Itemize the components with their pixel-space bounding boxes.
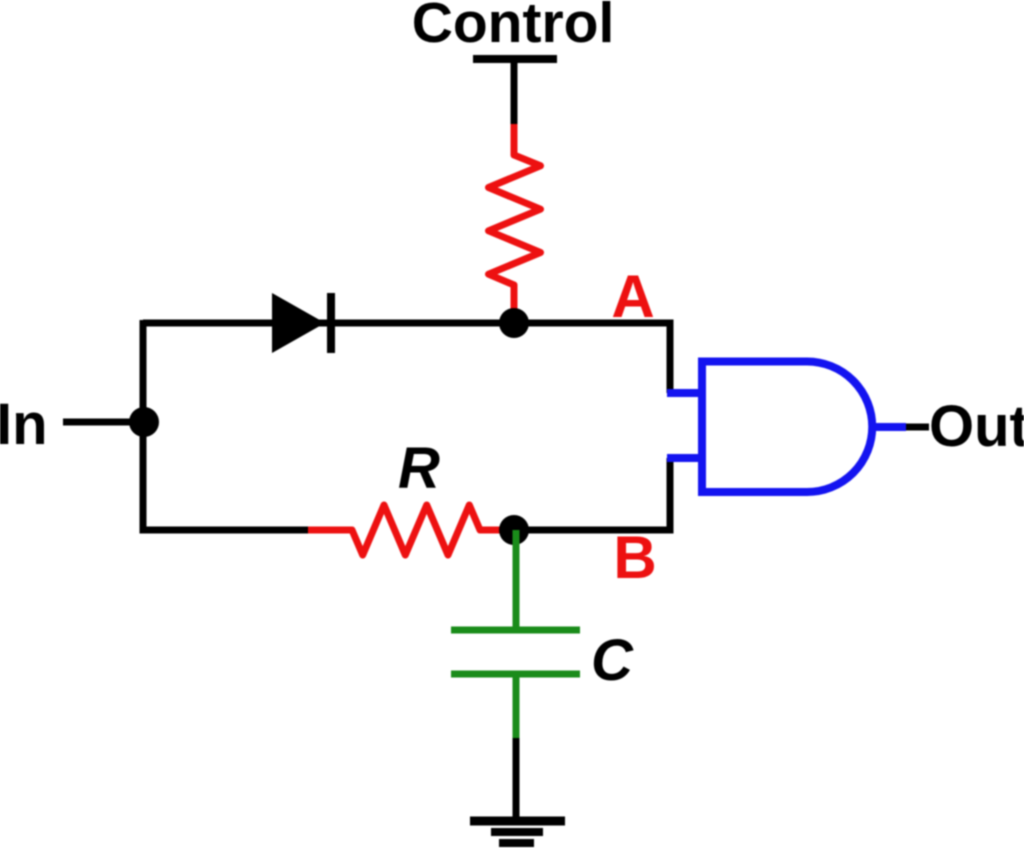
Control terminal bar [473,55,557,63]
wire node B to capacitor (green) [513,530,520,630]
resistor R1 (control pull-up, red zigzag) [489,124,541,323]
wire to ground (black) [513,738,520,821]
node B junction dot [499,515,529,545]
wire In stub [63,419,144,426]
node In junction dot [129,407,159,437]
svg-text:Control: Control [412,0,615,55]
node A junction dot [499,308,529,338]
ground symbol [470,821,565,843]
op-amp U1 AND gate body [702,362,872,493]
wire top rail to gate input A [143,323,670,393]
capacitor C bottom plate [451,671,580,678]
wire left rail [143,320,311,530]
svg-text:C: C [591,628,634,693]
svg-text:Out: Out [929,394,1024,459]
svg-text:In: In [0,392,48,457]
svg-text:B: B [613,524,656,591]
wire gate input A stub (blue) [667,389,703,397]
wire gate input B stub (blue) [667,454,703,462]
resistor R (red zigzag horizontal) [308,505,503,555]
diode D1 cathode bar [327,293,335,353]
wire gate output stub (blue) [870,423,906,431]
wire Control bar to resistor (black) [511,59,518,128]
wire node B to gate input B [514,458,670,530]
capacitor C top plate [451,627,580,634]
wire output dash (black) [906,424,929,431]
wire capacitor to ground (green) [513,674,520,741]
svg-text:R: R [398,436,440,501]
diode D1 triangle [272,293,325,353]
